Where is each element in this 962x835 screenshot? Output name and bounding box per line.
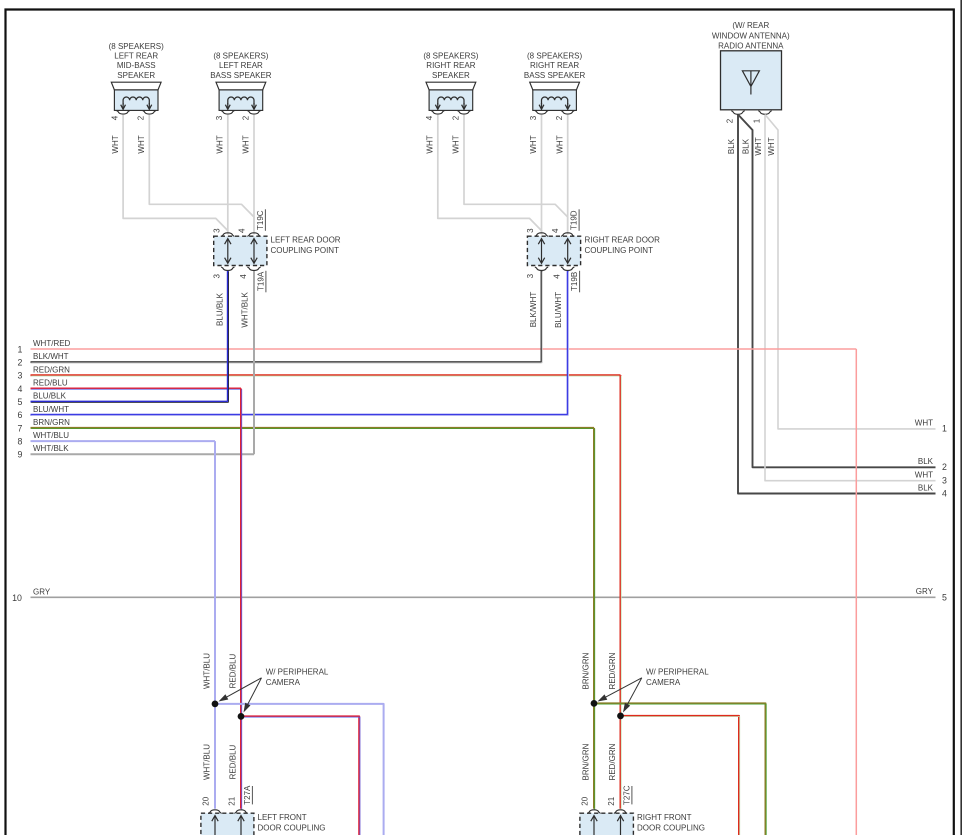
junction dot RED/GRN bbox=[617, 713, 624, 720]
wire WHT/BLU camera branch bbox=[215, 704, 384, 835]
wire: left bass pin2 to left coupling pin4 bbox=[253, 115, 255, 235]
wire BRN/GRN camera branch bbox=[594, 703, 766, 835]
svg-text:RED/BLU: RED/BLU bbox=[33, 379, 68, 388]
svg-text:4: 4 bbox=[239, 274, 248, 279]
svg-text:(8 SPEAKERS): (8 SPEAKERS) bbox=[527, 52, 582, 61]
svg-text:BLK: BLK bbox=[727, 138, 736, 154]
svg-text:(8 SPEAKERS): (8 SPEAKERS) bbox=[109, 42, 164, 51]
svg-text:GRY: GRY bbox=[916, 587, 934, 596]
coupling point: right front door (T27C) bbox=[580, 785, 705, 835]
svg-text:3: 3 bbox=[526, 273, 535, 278]
wire label RED/GRN upper bbox=[608, 652, 617, 689]
svg-text:COUPLING POINT: COUPLING POINT bbox=[585, 246, 654, 255]
speaker: right rear bass (8 speakers) bbox=[524, 52, 586, 154]
right exit label BLK 2 bbox=[918, 457, 947, 472]
wire label RED/GRN lower bbox=[608, 743, 617, 780]
svg-text:RIGHT REAR: RIGHT REAR bbox=[426, 61, 475, 70]
svg-text:1: 1 bbox=[753, 118, 762, 123]
right exit label WHT 3 bbox=[915, 471, 947, 486]
svg-text:WHT: WHT bbox=[216, 135, 225, 153]
svg-text:4: 4 bbox=[18, 384, 23, 394]
wire WHT: antenna pin1 fork to right exit 1 bbox=[765, 115, 936, 429]
harness wire 8 WHT/BLU (left exit) bbox=[18, 431, 215, 446]
wire label BLK/WHT bbox=[529, 292, 538, 328]
svg-text:BLU/WHT: BLU/WHT bbox=[554, 292, 563, 328]
wire label BLU/BLK bbox=[216, 292, 225, 326]
harness wire 2 BLK/WHT (left exit) bbox=[18, 352, 543, 367]
wire label WHT (antenna pin 1 a) bbox=[754, 137, 763, 155]
svg-text:2: 2 bbox=[18, 358, 23, 368]
coupling point: right rear door (T19D/T19B) bbox=[526, 209, 660, 292]
svg-text:BRN/GRN: BRN/GRN bbox=[582, 743, 591, 780]
svg-text:T27A: T27A bbox=[243, 785, 252, 805]
svg-text:WHT: WHT bbox=[555, 135, 564, 153]
svg-text:3: 3 bbox=[215, 115, 224, 120]
svg-text:WHT: WHT bbox=[137, 135, 146, 153]
callout: w/ peripheral camera (left) bbox=[219, 668, 329, 713]
wire label RED/BLU lower bbox=[229, 744, 238, 779]
svg-text:WHT/BLU: WHT/BLU bbox=[203, 653, 212, 689]
svg-text:MID-BASS: MID-BASS bbox=[117, 61, 156, 70]
harness wire 4 RED/BLU (left exit) bbox=[18, 379, 242, 394]
harness wire 5 BLU/BLK (left exit) bbox=[18, 392, 229, 407]
wire: right bass pin3 to right coupling pin3 bbox=[541, 115, 543, 235]
harness wire 1 WHT/RED (left exit) bbox=[18, 339, 857, 354]
coupling point: left front door (T27A) bbox=[201, 785, 326, 835]
svg-text:RIGHT FRONT: RIGHT FRONT bbox=[637, 813, 692, 822]
speaker: left rear mid-bass (8 speakers) bbox=[109, 42, 164, 154]
wire: left bass pin3 to left coupling pin3 bbox=[227, 115, 229, 235]
svg-text:2: 2 bbox=[137, 115, 146, 120]
wire: right bass pin2 to right coupling pin4 bbox=[567, 115, 569, 235]
junction dot WHT/BLU bbox=[212, 701, 219, 708]
harness wire 3 RED/GRN (left exit) bbox=[18, 365, 622, 380]
svg-text:3: 3 bbox=[212, 273, 221, 278]
svg-text:4: 4 bbox=[110, 115, 119, 120]
wire label WHT (antenna pin 1 b) bbox=[767, 137, 776, 155]
coupling point: left rear door (T19C/T19A) bbox=[212, 209, 341, 292]
harness wire 7 BRN/GRN (left exit) bbox=[18, 418, 595, 433]
svg-text:BLK/WHT: BLK/WHT bbox=[529, 292, 538, 328]
svg-text:RED/GRN: RED/GRN bbox=[33, 365, 70, 374]
svg-text:WHT/BLU: WHT/BLU bbox=[33, 431, 69, 440]
wire BLU/WHT riser bbox=[567, 271, 570, 416]
wire WHT/BLU drop bbox=[214, 441, 216, 809]
wire RED/BLU drop bbox=[240, 389, 243, 810]
svg-text:BLU/BLK: BLU/BLK bbox=[216, 292, 225, 326]
svg-text:LEFT REAR DOOR: LEFT REAR DOOR bbox=[271, 235, 341, 244]
svg-text:6: 6 bbox=[18, 410, 23, 420]
wire WHT/BLK riser bbox=[253, 271, 255, 454]
svg-text:BLK/WHT: BLK/WHT bbox=[33, 352, 69, 361]
svg-text:4: 4 bbox=[942, 488, 947, 498]
harness wire 9 WHT/BLK (left exit) bbox=[18, 444, 254, 459]
wire label WHT/BLU lower bbox=[203, 744, 212, 780]
svg-text:BASS SPEAKER: BASS SPEAKER bbox=[524, 71, 586, 80]
svg-text:RIGHT REAR DOOR: RIGHT REAR DOOR bbox=[585, 235, 661, 244]
svg-text:RED/BLU: RED/BLU bbox=[229, 653, 238, 688]
junction dot RED/BLU bbox=[238, 713, 245, 720]
svg-text:LEFT REAR: LEFT REAR bbox=[114, 52, 158, 61]
svg-text:T19C: T19C bbox=[256, 210, 265, 230]
svg-text:WHT: WHT bbox=[111, 135, 120, 153]
svg-text:BRN/GRN: BRN/GRN bbox=[33, 418, 70, 427]
wire label WHT/BLU upper bbox=[203, 653, 212, 689]
svg-text:2: 2 bbox=[555, 115, 564, 120]
svg-text:2: 2 bbox=[241, 115, 250, 120]
svg-text:5: 5 bbox=[18, 397, 23, 407]
svg-text:COUPLING POINT: COUPLING POINT bbox=[271, 246, 340, 255]
callout: w/ peripheral camera (right) bbox=[598, 668, 710, 713]
svg-text:2: 2 bbox=[942, 462, 947, 472]
wire label BRN/GRN upper bbox=[582, 652, 591, 689]
harness wire 10 GRY full width bbox=[12, 587, 947, 603]
svg-text:1: 1 bbox=[18, 344, 23, 354]
wire label BLK (antenna pin 2 a) bbox=[727, 138, 736, 154]
svg-text:WHT: WHT bbox=[452, 135, 461, 153]
svg-text:BASS SPEAKER: BASS SPEAKER bbox=[210, 71, 272, 80]
svg-text:RADIO ANTENNA: RADIO ANTENNA bbox=[718, 42, 784, 51]
wire WHT: antenna pin1 straight to right exit 3 bbox=[765, 115, 936, 481]
svg-text:WHT: WHT bbox=[915, 471, 933, 480]
svg-text:T27C: T27C bbox=[622, 785, 631, 805]
svg-text:WHT/BLK: WHT/BLK bbox=[33, 444, 69, 453]
svg-text:RED/GRN: RED/GRN bbox=[608, 652, 617, 689]
svg-text:RED/BLU: RED/BLU bbox=[229, 744, 238, 779]
svg-text:3: 3 bbox=[526, 228, 535, 233]
svg-text:WHT/RED: WHT/RED bbox=[33, 339, 71, 348]
svg-text:WHT: WHT bbox=[242, 135, 251, 153]
svg-text:21: 21 bbox=[228, 796, 237, 805]
svg-text:9: 9 bbox=[18, 450, 23, 460]
svg-text:SPEAKER: SPEAKER bbox=[432, 71, 470, 80]
wire label RED/BLU upper bbox=[229, 653, 238, 688]
svg-text:T19A: T19A bbox=[256, 271, 265, 291]
svg-text:LEFT FRONT: LEFT FRONT bbox=[258, 813, 307, 822]
svg-text:WHT/BLU: WHT/BLU bbox=[203, 744, 212, 780]
wire RED/GRN drop bbox=[620, 375, 623, 809]
svg-text:WINDOW ANTENNA): WINDOW ANTENNA) bbox=[712, 31, 790, 40]
svg-text:1: 1 bbox=[942, 424, 947, 434]
svg-text:4: 4 bbox=[553, 274, 562, 279]
svg-text:WHT: WHT bbox=[754, 137, 763, 155]
wire BLK/WHT riser bbox=[541, 271, 544, 363]
svg-text:T19D: T19D bbox=[570, 210, 579, 230]
svg-text:DOOR COUPLING: DOOR COUPLING bbox=[258, 824, 326, 833]
wire: right rear pin4 to right coupling pin3 bbox=[438, 115, 542, 235]
speaker: right rear (8 speakers) bbox=[423, 52, 478, 154]
svg-text:BLK: BLK bbox=[918, 483, 934, 492]
svg-text:T19B: T19B bbox=[570, 272, 579, 291]
radio antenna (w/ rear window antenna) bbox=[712, 21, 790, 123]
svg-text:3: 3 bbox=[212, 228, 221, 233]
svg-text:RED/GRN: RED/GRN bbox=[608, 743, 617, 780]
svg-text:CAMERA: CAMERA bbox=[646, 678, 681, 687]
svg-text:8: 8 bbox=[18, 437, 23, 447]
svg-text:(W/ REAR: (W/ REAR bbox=[732, 21, 769, 30]
svg-text:3: 3 bbox=[529, 115, 538, 120]
wire RED/GRN camera branch bbox=[621, 716, 740, 835]
wire: mid-bass pin2 to left coupling pin4 bbox=[149, 115, 254, 235]
right exit label BLK 4 bbox=[918, 483, 947, 498]
svg-text:BRN/GRN: BRN/GRN bbox=[582, 652, 591, 689]
svg-text:4: 4 bbox=[551, 228, 560, 233]
svg-text:7: 7 bbox=[18, 423, 23, 433]
svg-text:21: 21 bbox=[607, 796, 616, 805]
svg-text:2: 2 bbox=[726, 118, 735, 123]
svg-text:(8 SPEAKERS): (8 SPEAKERS) bbox=[213, 52, 268, 61]
wire label BLK (antenna pin 2 b) bbox=[742, 138, 751, 154]
svg-text:SPEAKER: SPEAKER bbox=[117, 71, 155, 80]
svg-text:10: 10 bbox=[12, 593, 22, 603]
svg-text:(8 SPEAKERS): (8 SPEAKERS) bbox=[423, 52, 478, 61]
svg-text:5: 5 bbox=[942, 592, 947, 602]
svg-text:3: 3 bbox=[942, 476, 947, 486]
svg-text:WHT: WHT bbox=[767, 137, 776, 155]
speaker: left rear bass (8 speakers) bbox=[210, 52, 272, 154]
svg-text:WHT: WHT bbox=[915, 419, 933, 428]
right exit label WHT 1 bbox=[915, 419, 947, 434]
wire label BRN/GRN lower bbox=[582, 743, 591, 780]
svg-text:WHT: WHT bbox=[426, 135, 435, 153]
wire BLU/BLK riser bbox=[227, 271, 230, 403]
svg-text:3: 3 bbox=[18, 371, 23, 381]
harness wire 6 BLU/WHT (left exit) bbox=[18, 405, 569, 420]
svg-text:GRY: GRY bbox=[33, 587, 51, 596]
wire WHT/RED drop to bottom bbox=[855, 349, 857, 835]
svg-text:LEFT REAR: LEFT REAR bbox=[219, 61, 263, 70]
svg-text:BLU/BLK: BLU/BLK bbox=[33, 392, 67, 401]
wire BLK: antenna pin2 straight to right exit 4 bbox=[738, 115, 936, 494]
wire RED/BLU camera branch bbox=[241, 716, 360, 835]
wire label BLU/WHT bbox=[554, 292, 563, 328]
svg-text:W/ PERIPHERAL: W/ PERIPHERAL bbox=[266, 668, 329, 677]
wire: mid-bass pin4 to left coupling pin3 bbox=[123, 115, 228, 235]
svg-text:4: 4 bbox=[425, 115, 434, 120]
svg-text:2: 2 bbox=[451, 115, 460, 120]
wire: right rear pin2 to right coupling pin4 bbox=[464, 115, 568, 235]
junction dot BRN/GRN bbox=[591, 700, 598, 707]
svg-text:4: 4 bbox=[238, 228, 247, 233]
svg-text:BLK: BLK bbox=[918, 457, 934, 466]
svg-text:W/ PERIPHERAL: W/ PERIPHERAL bbox=[646, 668, 709, 677]
svg-text:20: 20 bbox=[202, 796, 211, 805]
wire label WHT/BLK bbox=[241, 291, 250, 327]
svg-text:WHT/BLK: WHT/BLK bbox=[241, 291, 250, 327]
svg-text:20: 20 bbox=[581, 796, 590, 805]
svg-text:RIGHT REAR: RIGHT REAR bbox=[530, 61, 579, 70]
wire BRN/GRN drop bbox=[593, 428, 596, 810]
svg-text:WHT: WHT bbox=[529, 135, 538, 153]
svg-text:DOOR COUPLING: DOOR COUPLING bbox=[637, 824, 705, 833]
svg-text:CAMERA: CAMERA bbox=[266, 678, 301, 687]
svg-text:BLU/WHT: BLU/WHT bbox=[33, 405, 69, 414]
wire BLK: antenna pin2 fork to right exit 2 bbox=[738, 115, 936, 468]
svg-text:BLK: BLK bbox=[742, 138, 751, 154]
